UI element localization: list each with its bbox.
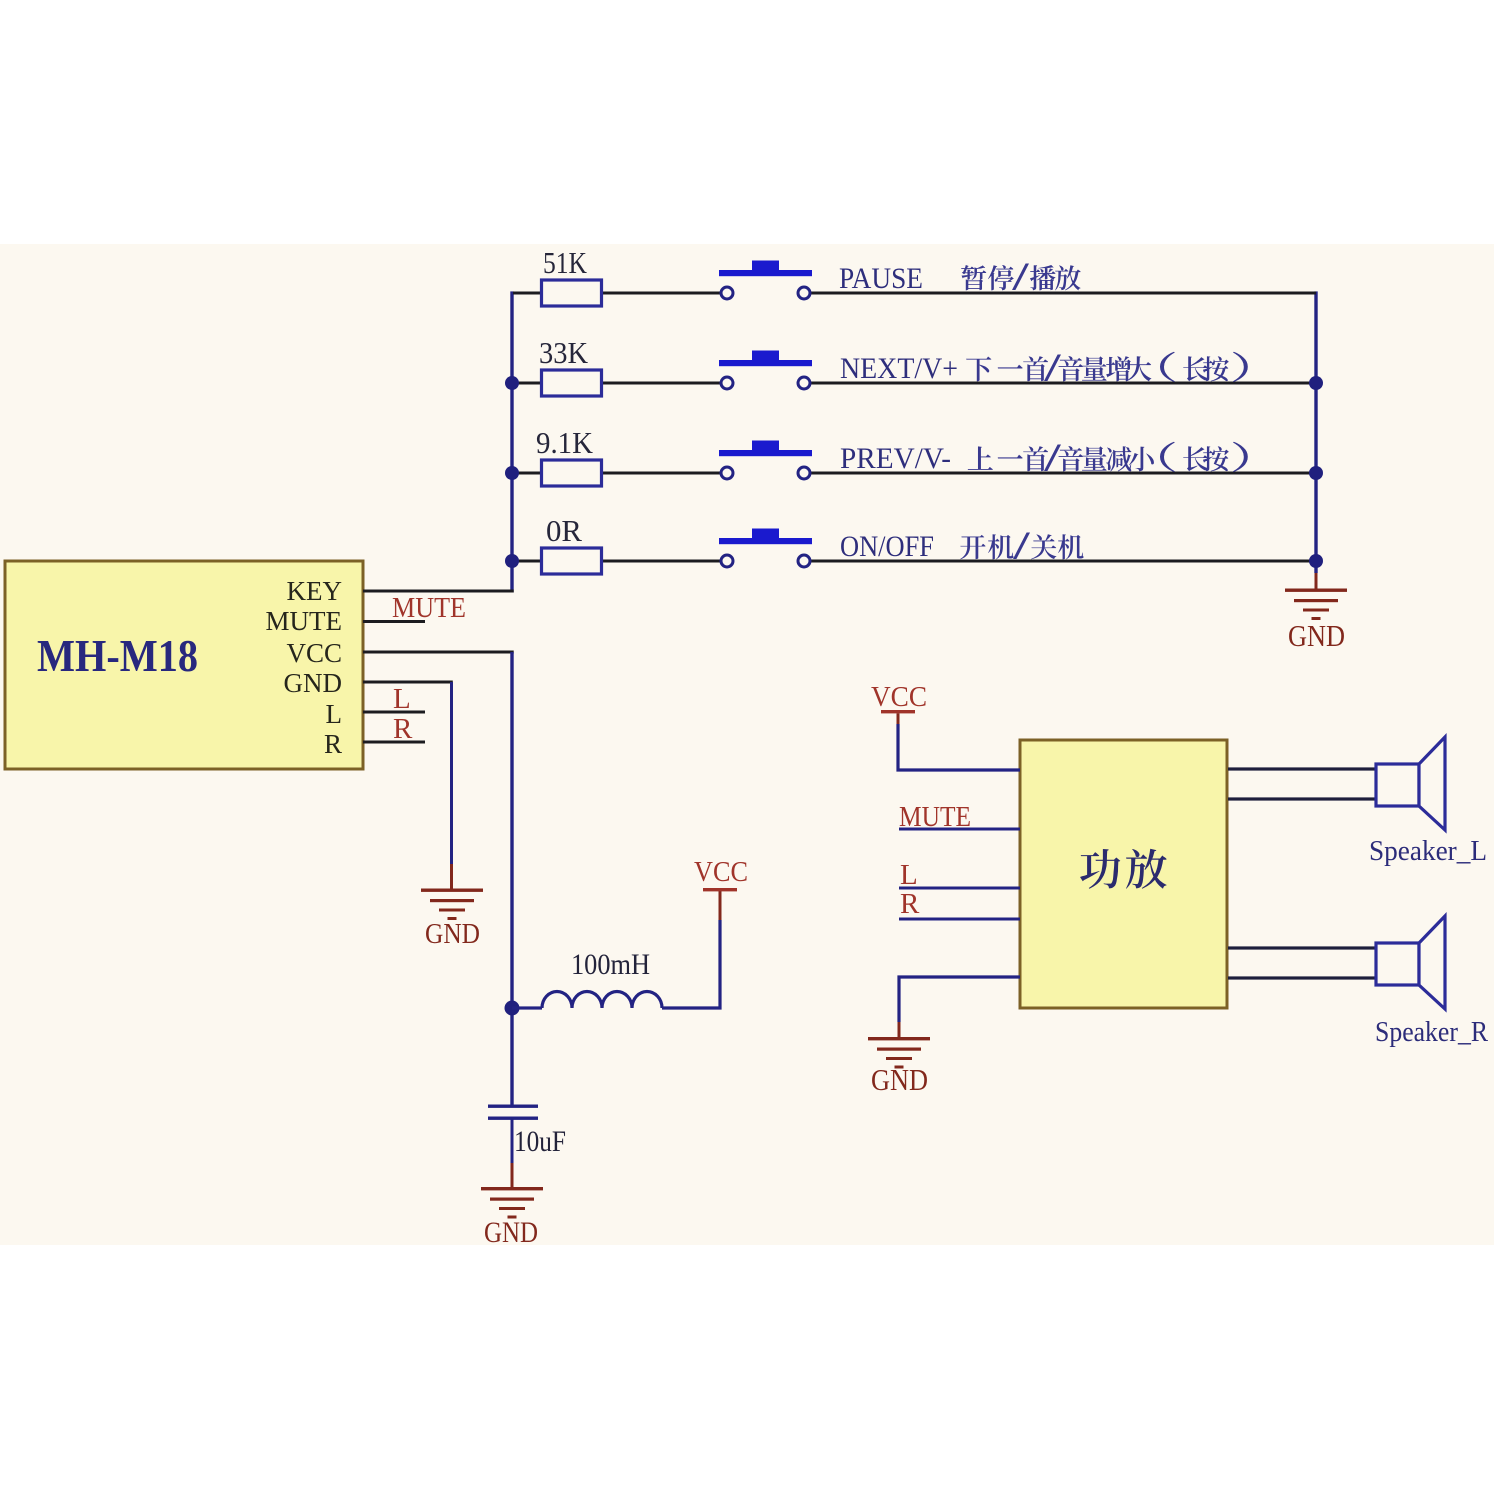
svg-text:GND: GND (425, 918, 480, 950)
svg-text:GND: GND (871, 1062, 928, 1097)
svg-text:VCC: VCC (694, 856, 748, 888)
svg-text:100mH: 100mH (571, 948, 650, 981)
svg-text:VCC: VCC (286, 638, 342, 668)
svg-text:VCC: VCC (871, 681, 927, 713)
svg-text:R: R (324, 729, 342, 759)
svg-text:PAUSE: PAUSE (839, 262, 923, 295)
svg-text:L: L (326, 699, 343, 729)
svg-text:MH-M18: MH-M18 (37, 630, 198, 681)
svg-text:GND: GND (1288, 618, 1345, 653)
svg-text:10uF: 10uF (514, 1125, 566, 1158)
svg-text:MUTE: MUTE (392, 592, 466, 624)
svg-text:Speaker_L: Speaker_L (1369, 835, 1487, 867)
svg-text:33K: 33K (539, 335, 589, 370)
svg-text:ON/OFF: ON/OFF (840, 530, 934, 563)
svg-text:PREV/V-: PREV/V- (840, 442, 951, 475)
svg-text:L: L (900, 859, 918, 891)
svg-text:NEXT/V+: NEXT/V+ (840, 352, 958, 385)
svg-text:51K: 51K (543, 245, 588, 280)
svg-text:Speaker_R: Speaker_R (1375, 1016, 1489, 1048)
svg-text:L: L (393, 683, 411, 715)
svg-text:9.1K: 9.1K (536, 425, 594, 460)
svg-text:GND: GND (484, 1216, 538, 1249)
svg-text:MUTE: MUTE (266, 606, 343, 636)
svg-text:KEY: KEY (287, 576, 343, 606)
svg-text:R: R (393, 713, 413, 745)
svg-text:0R: 0R (546, 513, 582, 548)
svg-text:GND: GND (284, 668, 343, 698)
svg-text:R: R (900, 888, 920, 920)
